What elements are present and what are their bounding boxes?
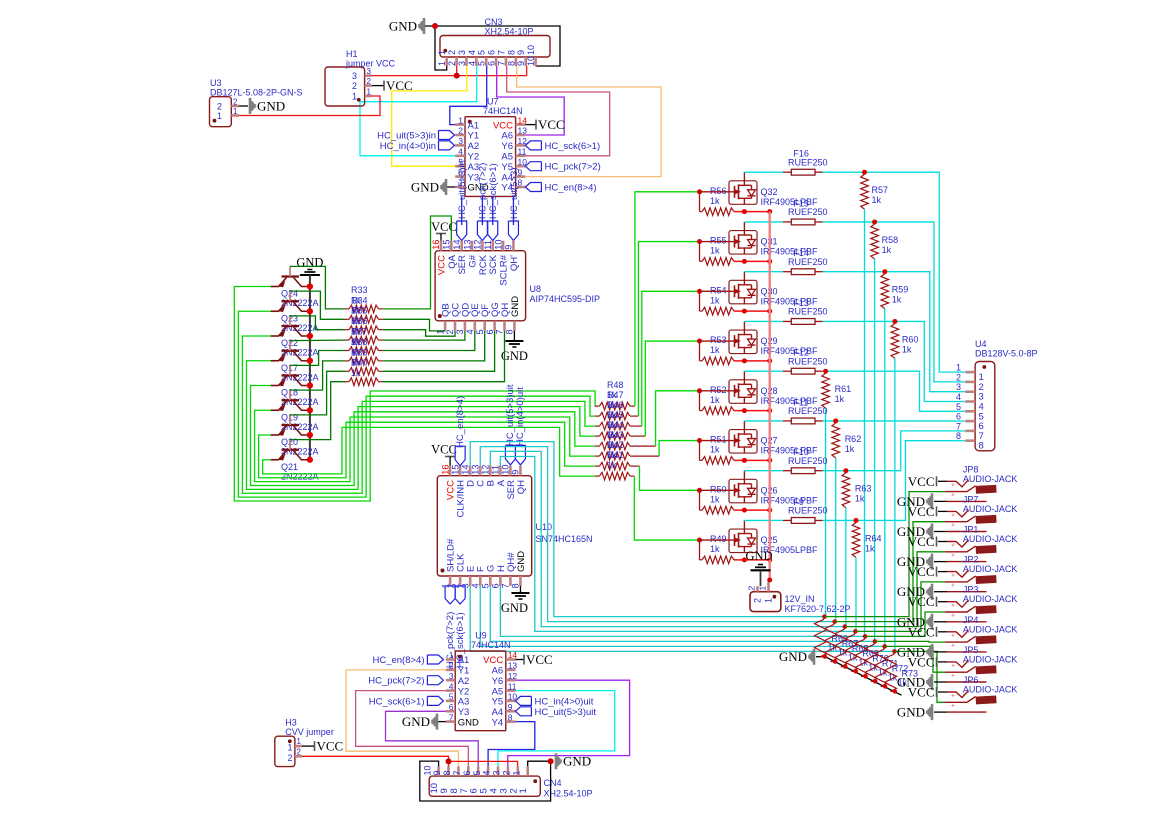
svg-text:15: 15 — [442, 239, 452, 249]
svg-text:1k: 1k — [710, 395, 720, 405]
junction dot R59 top — [882, 269, 887, 274]
fuse F16 RUEF250 — [791, 169, 815, 175]
junction dot R58 top — [872, 219, 877, 224]
svg-text:R54: R54 — [710, 285, 727, 295]
connector CN3 XH2.54-10P — [440, 36, 550, 58]
wire CN3 pin7 to U7 pin11 (magenta) — [507, 66, 610, 156]
port flag HC_sck(6>1) at U10 pin2 — [455, 586, 465, 604]
wire base Q22 to R35 (dark green) — [290, 316, 345, 330]
wire R44 to Q28 gate (bright green) — [630, 445, 656, 447]
svg-text:CN3: CN3 — [485, 17, 503, 27]
svg-text:1k: 1k — [710, 345, 720, 355]
svg-text:VCC: VCC — [908, 594, 935, 609]
junction dot R69 bottom — [854, 669, 858, 673]
U9 right pin 14 (VCC) — [506, 658, 516, 661]
fuse F14 RUEF250 — [791, 269, 815, 275]
svg-text:R51: R51 — [710, 435, 727, 445]
svg-text:2: 2 — [217, 102, 222, 112]
svg-text:XH2.54-10P: XH2.54-10P — [485, 27, 534, 37]
svg-text:Y1: Y1 — [458, 666, 470, 677]
svg-text:3: 3 — [352, 71, 357, 81]
svg-text:VCC: VCC — [431, 443, 457, 457]
svg-text:16: 16 — [431, 239, 441, 249]
svg-text:RUEF250: RUEF250 — [788, 307, 828, 317]
svg-text:1k: 1k — [892, 295, 902, 305]
wire R36 to U8 pin 3 (dark green) — [383, 331, 465, 340]
svg-text:Y3: Y3 — [458, 707, 470, 718]
svg-text:JP7: JP7 — [963, 494, 979, 504]
svg-text:2: 2 — [956, 372, 961, 382]
svg-text:2: 2 — [288, 753, 293, 763]
svg-text:AIP74HC595-DIP: AIP74HC595-DIP — [530, 294, 601, 304]
svg-text:AUDIO-JACK: AUDIO-JACK — [963, 474, 1018, 484]
wire sense net to JP2 ring (green) — [855, 582, 945, 632]
resistor R66 1k (pulldown) — [815, 617, 827, 657]
wire emitter Q22 bus to R46 (bright green) — [242, 336, 594, 493]
svg-text:2: 2 — [458, 126, 463, 136]
svg-text:U9: U9 — [475, 631, 487, 641]
port flag HC_in(4>0)uit at U10 pin9 — [515, 445, 525, 465]
wire Q30 drain net (cyan) — [823, 272, 956, 392]
CN3 pin 2 stub — [455, 57, 458, 66]
port flag HC_en(8>4) at U7 pin8 — [525, 183, 541, 192]
svg-text:7: 7 — [449, 712, 454, 722]
U10 bottom pin 3 (E) — [469, 576, 472, 586]
svg-text:A2: A2 — [468, 141, 480, 152]
svg-text:JP5: JP5 — [963, 645, 979, 655]
svg-text:JP8: JP8 — [963, 464, 979, 474]
U8 top pin 11 (SCK) — [491, 241, 494, 251]
junction dot R71 bottom — [873, 679, 877, 683]
wire sense net 5 to U10 pin 6 — [500, 586, 865, 636]
wire sense net 1 to U10 pin 14 — [470, 442, 824, 617]
ic U10 SN74HC165N — [437, 476, 531, 576]
junction dot Q22 collector on rail — [307, 333, 313, 339]
svg-text:7: 7 — [495, 329, 505, 334]
svg-text:12V_IN: 12V_IN — [785, 594, 815, 604]
svg-text:Y4: Y4 — [492, 717, 504, 728]
gnd flag JP8 — [928, 493, 933, 509]
svg-text:SN74HC165N: SN74HC165N — [536, 534, 593, 544]
port flag HC_en(8>4) at U9 pin1 — [427, 655, 443, 664]
U9 left pin 1 (A1) — [446, 658, 455, 661]
U9 right pin 13 (A6) — [506, 669, 516, 672]
wire sense net to JP8 ring (green) — [825, 492, 946, 617]
wire base Q18 to R37 (dark green) — [290, 351, 345, 366]
wire U9 Y4 to CN4 pin5 (blue) — [488, 722, 535, 767]
U8 bottom pin 1 (QB) — [444, 321, 447, 331]
fuse F15 RUEF250 — [791, 219, 815, 225]
svg-text:4: 4 — [458, 147, 463, 157]
svg-text:7: 7 — [501, 583, 511, 588]
junction dot gate node Q27 — [697, 438, 702, 443]
U7 left pin 2 (Y1) — [455, 134, 465, 137]
resistor R42 1k — [595, 465, 600, 467]
svg-text:6: 6 — [487, 50, 497, 55]
transistor Q19 2N2222A — [282, 399, 300, 401]
junction dot gate node Q32 — [697, 189, 702, 194]
svg-text:AUDIO-JACK: AUDIO-JACK — [963, 594, 1018, 604]
wire base Q23 to R34 (dark green) — [290, 291, 345, 319]
gnd flag JP7 — [928, 524, 933, 540]
svg-text:SCK: SCK — [488, 254, 499, 274]
resistor R50 1k (gate-source) — [699, 490, 701, 510]
wire net HC_sck(6>1) U7 area to U8 — [492, 196, 494, 225]
U4 pin 2 stub — [955, 381, 965, 383]
CN3 pin 1 stub — [445, 57, 448, 66]
svg-text:1k: 1k — [710, 445, 720, 455]
U10 top pin 16 (VCC) — [449, 466, 452, 476]
wire Q31 drain net (cyan) — [823, 222, 956, 382]
svg-text:10: 10 — [526, 56, 536, 66]
junction dot R72 bottom — [883, 684, 887, 688]
junction dot Q19 collector on rail — [307, 407, 313, 413]
U8 top pin 9 (QH') — [512, 241, 515, 251]
junction dot Q24 collector on rail — [307, 283, 313, 289]
svg-text:VCC: VCC — [908, 534, 935, 549]
svg-text:8: 8 — [979, 441, 984, 452]
junction dot CN4 GND — [548, 758, 554, 764]
svg-text:HC_in(4>0)uit: HC_in(4>0)uit — [535, 696, 594, 707]
svg-text:14: 14 — [452, 239, 462, 249]
wire emitter Q24 bus to R48 (bright green) — [234, 287, 595, 502]
svg-text:GND: GND — [516, 551, 527, 572]
svg-text:10: 10 — [493, 239, 503, 249]
svg-text:2: 2 — [352, 81, 357, 91]
svg-text:JP4: JP4 — [963, 615, 979, 625]
wire R38 to U8 pin 5 (dark green) — [383, 331, 485, 361]
U4 pin 4 stub — [955, 401, 965, 403]
CN3 pin 8 stub — [515, 57, 518, 66]
wire H1 pin1 to U3 pin1 (red) — [239, 96, 380, 116]
wire net HC_pck(7>2) U7 area to U8 — [481, 196, 483, 225]
U7 left pin 4 (Y2) — [455, 155, 465, 158]
U7 right pin 14 (VCC) — [516, 123, 526, 126]
wire Q29 drain net (cyan) — [823, 321, 956, 401]
svg-text:3: 3 — [492, 770, 502, 775]
svg-text:9: 9 — [511, 470, 521, 475]
svg-text:HC_pck(7>2): HC_pck(7>2) — [545, 162, 601, 173]
svg-text:13: 13 — [518, 126, 528, 136]
wire Q25 drain net (cyan) — [823, 441, 956, 521]
svg-text:AUDIO-JACK: AUDIO-JACK — [963, 624, 1018, 634]
wire sense net to JP7 ring (green) — [835, 522, 945, 622]
wire drain Q28 to fuse F12 — [743, 371, 745, 380]
transistor Q22 2N2222A — [282, 325, 300, 327]
svg-text:6: 6 — [462, 770, 472, 775]
junction dot R66 bottom — [823, 654, 827, 658]
svg-text:1: 1 — [956, 363, 961, 373]
svg-text:VCC: VCC — [908, 685, 935, 700]
port flag HC_uit(5>3)uit at U10 pin10 — [505, 445, 515, 465]
U10 bottom pin 6 (H) — [499, 576, 502, 586]
svg-text:1: 1 — [437, 61, 447, 66]
wire CN3 pin4 to U7 pin4 (cyan) — [360, 66, 477, 156]
svg-text:Q32: Q32 — [761, 187, 778, 197]
svg-text:GND: GND — [257, 99, 285, 114]
junction dot Q21 collector on rail — [307, 457, 313, 463]
svg-text:1k: 1k — [710, 246, 720, 256]
U9 left pin 3 (A2) — [446, 679, 455, 682]
U8 bottom pin 4 (QE) — [473, 321, 476, 331]
svg-text:2: 2 — [449, 661, 454, 671]
resistor R44 1k — [595, 445, 600, 447]
wire R61 to sense net (cyan) — [825, 408, 827, 616]
wire Q27 drain net (cyan) — [823, 420, 956, 422]
ic U9 74HC14N — [455, 651, 506, 731]
svg-text:14: 14 — [460, 464, 470, 474]
resistor R57 1k — [861, 174, 869, 209]
svg-text:Y2: Y2 — [468, 152, 480, 163]
resistor R64 1k — [852, 522, 860, 557]
junction dot sense net 8 — [892, 649, 897, 654]
junction dot sense net 4 — [853, 629, 858, 634]
wire R58 to sense net (cyan) — [874, 259, 876, 641]
wire CN3 pin6 to U7 pin13 (purple) — [497, 66, 565, 135]
transistor Q17 2N2222A — [282, 350, 300, 352]
svg-text:DB128V-5.0-8P: DB128V-5.0-8P — [975, 349, 1038, 359]
H3 pin 2 stub — [295, 755, 302, 758]
svg-text:R64: R64 — [865, 533, 882, 543]
wire R63 to sense net (cyan) — [845, 508, 847, 627]
gnd flag U9 pin7 — [437, 721, 446, 723]
CN4 pin 1 stub — [526, 766, 529, 776]
svg-text:1: 1 — [758, 586, 768, 591]
wire R45 to Q29 gate (bright green) — [630, 435, 645, 437]
U8 bottom pin 6 (QG) — [493, 321, 496, 331]
svg-text:16: 16 — [440, 464, 450, 474]
junction dot R68 bottom — [843, 664, 847, 668]
svg-text:4: 4 — [467, 61, 477, 66]
connector U3 DB127L-5.08-2P-GN-S — [210, 97, 232, 127]
svg-text:GND: GND — [897, 705, 925, 720]
U7 right pin 8 (Y4) — [516, 186, 526, 189]
svg-text:GND: GND — [458, 717, 479, 728]
resistor R73 1k (pulldown) — [885, 651, 897, 691]
svg-text:U7: U7 — [487, 97, 499, 107]
U7 left pin 5 (A3) — [455, 165, 465, 168]
transistor Q18 2N2222A — [282, 374, 300, 376]
svg-text:R48: R48 — [607, 380, 624, 390]
svg-text:1: 1 — [764, 598, 774, 603]
U9 left pin 7 (GND) — [446, 720, 455, 723]
junction dots source line Q27 — [742, 458, 747, 463]
gnd flag diagonal resistor array — [810, 649, 815, 665]
jumper H1 (jumper VCC) — [325, 67, 365, 106]
12V rail (light red) — [769, 212, 771, 580]
svg-text:A4: A4 — [492, 707, 504, 718]
wire drain Q27 to fuse F11 — [743, 421, 745, 430]
junction dot gate node Q30 — [697, 289, 702, 294]
svg-text:1k: 1k — [882, 245, 892, 255]
resistor R33 1k — [345, 308, 349, 310]
U8 top pin 15 (QA) — [450, 241, 453, 251]
resistor R52 1k (gate-source) — [699, 391, 701, 411]
svg-text:1: 1 — [437, 50, 447, 55]
svg-text:A5: A5 — [501, 152, 513, 163]
resistor R47 1k — [595, 415, 600, 417]
svg-text:13: 13 — [470, 464, 480, 474]
resistor R40 1k — [345, 381, 349, 383]
svg-text:A6: A6 — [492, 666, 504, 677]
svg-text:8: 8 — [505, 329, 515, 334]
junction dot Q23 collector on rail — [307, 308, 313, 314]
svg-text:VCC: VCC — [526, 652, 553, 667]
svg-text:HC_uit(5>3)in: HC_uit(5>3)in — [457, 160, 468, 219]
resistor R56 1k (gate-source) — [699, 192, 701, 212]
wire sense net 2 to U10 pin 13 — [480, 447, 834, 622]
wire R42 to Q26 gate (bright green) — [630, 465, 640, 467]
wire sense net 4 to U10 pin 11 — [500, 457, 855, 632]
U10 top pin 11 (A) — [499, 466, 502, 476]
resistor R68 1k (pulldown) — [835, 627, 847, 667]
svg-text:1k: 1k — [710, 196, 720, 206]
wire sense net 8 to U10 pin 3 — [470, 586, 894, 651]
svg-text:SCLR#: SCLR# — [499, 254, 510, 285]
junction dots source line Q30 — [742, 309, 747, 314]
wire emitter Q23 bus to R47 (bright green) — [238, 311, 594, 497]
svg-text:AUDIO-JACK: AUDIO-JACK — [963, 685, 1018, 695]
U4 pin 3 stub — [955, 391, 965, 393]
wire U9 Y3 to CN4 pin6 (violet) — [386, 711, 479, 766]
svg-text:2: 2 — [233, 98, 238, 107]
svg-text:RUEF250: RUEF250 — [788, 456, 828, 466]
U8 bottom pin 3 (QD) — [464, 321, 467, 331]
junction dot sense net 1 — [822, 614, 827, 619]
svg-text:4: 4 — [482, 770, 492, 775]
wire R35 to U8 pin 2 (dark green) — [383, 330, 455, 337]
svg-text:KF7620-7.62-2P: KF7620-7.62-2P — [785, 604, 851, 614]
svg-text:3: 3 — [458, 136, 463, 146]
svg-text:R43: R43 — [607, 430, 624, 440]
svg-text:SER: SER — [457, 255, 468, 275]
gnd flag CN4 — [556, 753, 561, 769]
svg-text:1: 1 — [367, 88, 372, 97]
U10 top pin 13 (C) — [479, 466, 482, 476]
svg-text:JP1: JP1 — [963, 525, 979, 535]
resistor R70 1k (pulldown) — [855, 636, 867, 676]
svg-text:GND: GND — [402, 714, 430, 729]
H1 pin 2 stub — [365, 84, 372, 87]
svg-text:JP6: JP6 — [963, 675, 979, 685]
wire R37 to U8 pin 4 (dark green) — [383, 331, 475, 351]
wire base Q21 to R40 (dark green) — [290, 382, 345, 440]
gnd diagonal bus line — [816, 657, 902, 696]
wire R43 to Q27 gate (bright green) — [630, 455, 659, 457]
svg-text:4: 4 — [467, 50, 477, 55]
resistor R36 1k — [345, 339, 349, 341]
CN4 pin 8 stub — [457, 766, 460, 776]
gnd symbol below U8 pin8 — [513, 331, 515, 341]
CN4 pin 2 stub — [516, 766, 519, 776]
wire drain Q30 to fuse F14 — [743, 272, 745, 281]
U10 top pin 10 (SER) — [509, 466, 512, 476]
svg-text:5: 5 — [477, 50, 487, 55]
U7 right pin 12 (Y6) — [516, 144, 526, 147]
svg-text:HC_uit(5>3)in: HC_uit(5>3)in — [377, 131, 436, 142]
svg-text:RUEF250: RUEF250 — [788, 506, 828, 516]
svg-text:VCC: VCC — [908, 504, 935, 519]
port flag HC_uit(5>3)in at U8 — [457, 221, 467, 241]
resistor R37 1k — [345, 350, 349, 352]
junction dots source line Q29 — [742, 358, 747, 363]
wire net HC_uit(5>3) U7 area to U8 — [512, 196, 514, 225]
resistor R67 1k (pulldown) — [825, 622, 837, 662]
svg-text:G#: G# — [467, 254, 478, 267]
svg-text:Y6: Y6 — [492, 676, 504, 687]
wire U9 A5 to CN4 pin4 (cyan) — [498, 691, 615, 767]
svg-text:15: 15 — [450, 464, 460, 474]
fuse F13 RUEF250 — [791, 319, 815, 325]
port flag HC_uit(5>3)uit at U9 pin9 — [515, 707, 531, 716]
svg-text:13: 13 — [462, 239, 472, 249]
svg-text:11: 11 — [491, 465, 501, 475]
wire emitter Q19 bus to R43 (bright green) — [255, 410, 595, 481]
ic U7 74HC14N — [465, 117, 516, 197]
svg-text:2: 2 — [367, 77, 372, 86]
U8 bottom pin 8 (GND) — [513, 321, 516, 331]
svg-text:HC_en(8>4): HC_en(8>4) — [455, 396, 466, 448]
svg-text:5: 5 — [449, 692, 454, 702]
svg-text:R61: R61 — [835, 384, 852, 394]
wire sense net to JP1 ring (green) — [845, 552, 945, 627]
svg-text:R40: R40 — [351, 358, 368, 368]
svg-text:RCK: RCK — [478, 254, 489, 275]
wire Q28 drain net (cyan) — [823, 371, 956, 411]
U7 left pin 1 (A1) — [455, 123, 465, 126]
svg-text:HC_sck(6>1): HC_sck(6>1) — [488, 163, 499, 219]
wire sense net 6 to U10 pin 5 — [490, 586, 875, 641]
port flag HC_uit(5>3)in at U7 pin2 — [439, 131, 455, 140]
junction dot Q20 collector on rail — [307, 432, 313, 438]
junction dot Q18 collector on rail — [307, 382, 313, 388]
svg-text:1: 1 — [288, 743, 293, 753]
junction dot sense net 6 — [873, 639, 878, 644]
junction dot R60 top — [892, 319, 897, 324]
svg-text:R63: R63 — [855, 484, 872, 494]
svg-text:12: 12 — [473, 239, 483, 249]
H1 pin 1 stub — [365, 95, 372, 98]
svg-text:AUDIO-JACK: AUDIO-JACK — [963, 534, 1018, 544]
svg-text:R58: R58 — [882, 235, 899, 245]
svg-text:5: 5 — [472, 770, 482, 775]
U9 right pin 10 (Y5) — [506, 700, 516, 703]
CN4 pin 4 stub — [497, 766, 500, 776]
junction dot gate node Q31 — [697, 239, 702, 244]
resistor R39 1k — [345, 370, 349, 372]
wire base Q17 to R36 (dark green) — [290, 339, 345, 342]
svg-text:8: 8 — [506, 50, 516, 55]
svg-text:8: 8 — [956, 431, 961, 441]
resistor R46 1k — [595, 425, 600, 427]
svg-text:1: 1 — [511, 770, 521, 775]
svg-text:9: 9 — [504, 245, 514, 250]
port flag HC_pck(7>2) at U10 pin1 — [445, 586, 455, 604]
resistor R60 1k — [891, 323, 899, 358]
wire R41 to Q25 gate (bright green) — [630, 475, 634, 477]
svg-text:1: 1 — [518, 788, 529, 793]
U8 top pin 14 (SER) — [460, 241, 463, 251]
svg-text:1: 1 — [449, 650, 454, 660]
svg-text:2: 2 — [447, 50, 457, 55]
wire R40 to U8 pin 7 (dark green) — [383, 331, 505, 382]
svg-text:R57: R57 — [872, 185, 889, 195]
svg-text:7: 7 — [956, 421, 961, 431]
wire base Q24 to R33 (dark green) — [290, 266, 345, 309]
junction dot R62 top — [833, 418, 838, 423]
svg-text:5: 5 — [475, 329, 485, 334]
svg-text:Y5: Y5 — [492, 697, 504, 708]
